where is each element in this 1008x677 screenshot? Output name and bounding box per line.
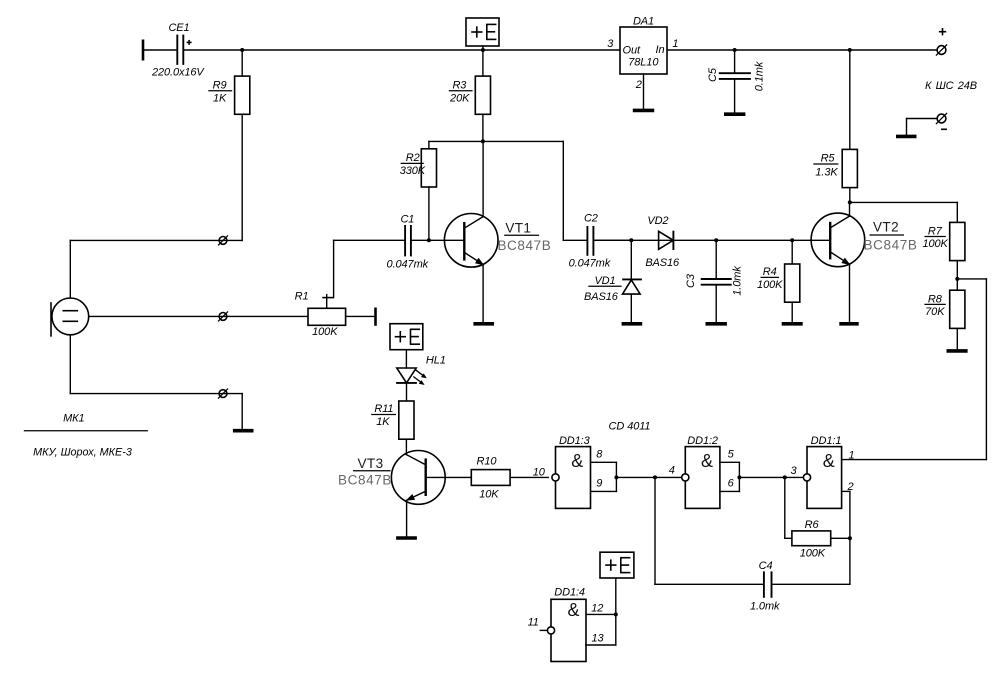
wire: DA1 pin 2 stub	[643, 74, 645, 110]
node: VT2 collector junction	[848, 200, 852, 204]
svg-text:МК1: МК1	[63, 412, 84, 424]
ground below R4	[782, 322, 803, 326]
svg-text:C3: C3	[685, 273, 697, 288]
ground below VT1 emitter	[473, 322, 494, 326]
svg-text:VD2: VD2	[647, 215, 668, 227]
node: DD1:2 inputs tie	[737, 475, 741, 479]
node: rail to C5 junction	[733, 48, 737, 52]
svg-text:DD1:4: DD1:4	[554, 586, 585, 598]
wire: R9 bottom lead down to left connector row	[241, 114, 243, 240]
ground below R8	[947, 349, 968, 353]
wire: R1 wiper up to C1	[333, 240, 335, 297]
svg-text:CE1: CE1	[168, 22, 189, 34]
terminal T-bar left of CE1	[142, 40, 145, 61]
capacitor CE1	[151, 22, 205, 78]
svg-text:In: In	[656, 44, 665, 56]
svg-text:4: 4	[669, 465, 675, 477]
ground below - terminal	[896, 135, 917, 139]
power symbol +E (above HL1)	[390, 324, 423, 368]
svg-text:330K: 330K	[400, 165, 426, 177]
svg-text:C2: C2	[584, 212, 598, 224]
svg-text:1.0mk: 1.0mk	[750, 601, 780, 613]
resistor R4	[757, 240, 800, 323]
svg-text:9: 9	[596, 477, 602, 489]
ground below connector pin 3	[233, 429, 254, 433]
gate DD1:2	[669, 435, 740, 508]
wire: R3 bottom lead to node A	[482, 114, 484, 141]
wire: collector node to R7	[850, 202, 958, 222]
connector pin 1 (to R9)	[218, 235, 228, 245]
svg-text:R1: R1	[295, 290, 309, 302]
svg-text:220.0x16V: 220.0x16V	[151, 66, 205, 78]
ground below C3	[706, 322, 727, 326]
svg-text:BAS16: BAS16	[645, 257, 680, 269]
svg-text:1K: 1K	[376, 416, 390, 428]
svg-text:1K: 1K	[213, 93, 227, 105]
svg-text:1: 1	[672, 38, 678, 50]
ground below VT3 emitter	[396, 536, 417, 540]
svg-text:11: 11	[528, 617, 539, 629]
terminal - (К ШС 24В)	[907, 113, 948, 136]
svg-text:VT3: VT3	[358, 456, 384, 471]
svg-text:МКУ, Шорох, МКЕ-3: МКУ, Шорох, МКЕ-3	[33, 447, 132, 459]
svg-text:1: 1	[848, 450, 854, 462]
regulator DA1 78L10	[607, 15, 678, 91]
wire: node A horizontal to R2 and to C2 drop	[429, 141, 587, 240]
node A: R3/R2/C2/VT1 collector	[481, 139, 485, 143]
resistor R11	[371, 401, 414, 455]
wire: DD1:3 inputs to DD1:2 output	[616, 476, 681, 478]
svg-text:&: &	[571, 451, 583, 471]
resistor R6	[785, 477, 850, 559]
node: C3 top	[714, 238, 718, 242]
svg-text:2: 2	[635, 79, 642, 91]
svg-text:20K: 20K	[449, 93, 470, 105]
svg-text:0.047mk: 0.047mk	[387, 259, 429, 271]
resistor R2	[400, 141, 437, 240]
node: rail to R3 junction	[481, 48, 485, 52]
ground below VT2 emitter	[839, 322, 858, 326]
svg-text:R2: R2	[406, 152, 420, 164]
svg-text:3: 3	[790, 465, 797, 477]
svg-text:R5: R5	[821, 153, 836, 165]
capacitor C3	[685, 240, 744, 323]
svg-text:8: 8	[596, 449, 603, 461]
wire: mic top lead to connector row 1	[70, 240, 242, 298]
wire: DD1:2 inputs to DD1:1 output	[739, 476, 803, 478]
wire: divider junction to DD1:1 pin 1	[957, 279, 986, 460]
svg-text:VT1: VT1	[505, 220, 531, 235]
node: base VT2 / R4	[790, 238, 794, 242]
svg-text:100K: 100K	[800, 548, 826, 560]
wire: DD1:1 pin 2 down to C4/R6	[849, 491, 851, 584]
microphone MK1	[24, 298, 148, 459]
diode VD2 BAS16	[645, 215, 680, 269]
svg-text:70K: 70K	[925, 306, 945, 318]
svg-text:HL1: HL1	[426, 354, 446, 366]
ground below C5	[724, 112, 745, 116]
svg-text:DD1:3: DD1:3	[559, 435, 591, 447]
capacitor C5	[707, 50, 766, 114]
node: R6 right / pin2 junction	[848, 536, 852, 540]
resistor R8	[924, 290, 965, 350]
gate DD1:1	[790, 435, 986, 508]
svg-text:10: 10	[533, 466, 546, 478]
node: VD1 top	[629, 238, 633, 242]
ground below VD1	[622, 322, 643, 326]
svg-text:R10: R10	[477, 456, 498, 468]
svg-text:R7: R7	[928, 225, 943, 237]
svg-text:Out: Out	[623, 45, 641, 57]
svg-text:0.047mk: 0.047mk	[569, 258, 611, 270]
resistor R7	[922, 222, 964, 290]
svg-text:&: &	[823, 451, 835, 471]
terminal T-bar right of R1	[374, 308, 377, 326]
svg-text:BC847B: BC847B	[497, 238, 551, 253]
capacitor C2	[569, 212, 632, 269]
wire: +E rail left segment	[143, 49, 620, 51]
svg-text:3: 3	[607, 38, 614, 50]
node: rail to R5 junction	[848, 48, 852, 52]
svg-text:CD 4011: CD 4011	[609, 421, 651, 433]
svg-text:BC847B: BC847B	[338, 472, 392, 487]
svg-text:BC847B: BC847B	[864, 237, 918, 252]
node: DD1:4 inputs tie to +E	[614, 612, 618, 616]
svg-text:C1: C1	[400, 213, 414, 225]
svg-text:R8: R8	[928, 293, 943, 305]
transistor VT1 BC847B	[444, 141, 551, 323]
capacitor C1	[334, 213, 465, 270]
svg-text:BAS16: BAS16	[584, 291, 619, 303]
potentiometer R1 100K	[295, 290, 375, 338]
terminal + (К ШС 24В)	[925, 28, 977, 92]
svg-text:R9: R9	[213, 80, 227, 92]
svg-text:&: &	[567, 600, 579, 620]
svg-text:100K: 100K	[757, 279, 783, 291]
svg-text:R6: R6	[805, 519, 820, 531]
node: R7/R8 divider junction	[955, 277, 959, 281]
svg-text:DD1:1: DD1:1	[811, 435, 842, 447]
transistor VT3 BC847B	[338, 451, 471, 538]
svg-text:&: &	[701, 451, 713, 471]
svg-text:78L10: 78L10	[628, 56, 659, 68]
svg-text:К ШС 24В: К ШС 24В	[925, 80, 977, 92]
connector pin 3 (to ground)	[218, 389, 228, 399]
node: C1/R2/VT1 base	[427, 238, 431, 242]
wire: mic mid lead to R1	[89, 315, 308, 317]
power symbol +E (above DD1:4)	[600, 552, 634, 614]
svg-text:VD1: VD1	[594, 275, 615, 287]
resistor R9	[208, 50, 250, 114]
svg-text:0.1mk: 0.1mk	[754, 61, 766, 91]
label CD 4011	[609, 421, 651, 433]
svg-text:R11: R11	[374, 403, 393, 415]
svg-text:13: 13	[591, 632, 604, 644]
svg-text:5: 5	[728, 449, 735, 461]
wire: signal row C2..VT2 base	[594, 239, 830, 241]
svg-text:C5: C5	[707, 67, 719, 82]
svg-text:6: 6	[728, 477, 735, 489]
node: R6 left junction	[783, 475, 787, 479]
svg-text:10K: 10K	[479, 488, 499, 500]
node: DD1:3 inputs tie	[614, 475, 618, 479]
svg-text:DA1: DA1	[633, 15, 654, 27]
wire: mic bottom lead to ground	[70, 335, 242, 430]
svg-text:1.3K: 1.3K	[815, 166, 838, 178]
resistor R3	[449, 50, 491, 114]
svg-text:1.0mk: 1.0mk	[732, 266, 744, 296]
wire: C4 tap down	[654, 477, 656, 584]
connector pin 2 (to R1)	[218, 311, 228, 321]
node: rail to R9 junction	[240, 48, 244, 52]
svg-text:DD1:2: DD1:2	[687, 435, 718, 447]
svg-text:R3: R3	[452, 80, 467, 92]
ground below DA1	[633, 109, 654, 113]
LED HL1	[396, 354, 446, 401]
power symbol +E (top)	[466, 18, 499, 50]
resistor R5	[813, 50, 857, 202]
diode VD1 BAS16	[584, 240, 642, 323]
gate DD1:4	[528, 586, 616, 661]
svg-text:C4: C4	[759, 560, 773, 572]
transistor VT2 BC847B	[811, 202, 917, 323]
node: C4 tap junction	[653, 475, 657, 479]
svg-text:100K: 100K	[312, 326, 338, 338]
gate DD1:3	[533, 435, 617, 508]
svg-text:R4: R4	[763, 266, 777, 278]
svg-text:12: 12	[591, 603, 603, 615]
svg-text:VT2: VT2	[873, 220, 899, 235]
resistor R10	[471, 456, 548, 501]
wire: +E rail right segment (DA1 pin1 to + terminal)	[667, 49, 937, 51]
capacitor C4	[655, 560, 850, 613]
svg-text:100K: 100K	[922, 238, 948, 250]
